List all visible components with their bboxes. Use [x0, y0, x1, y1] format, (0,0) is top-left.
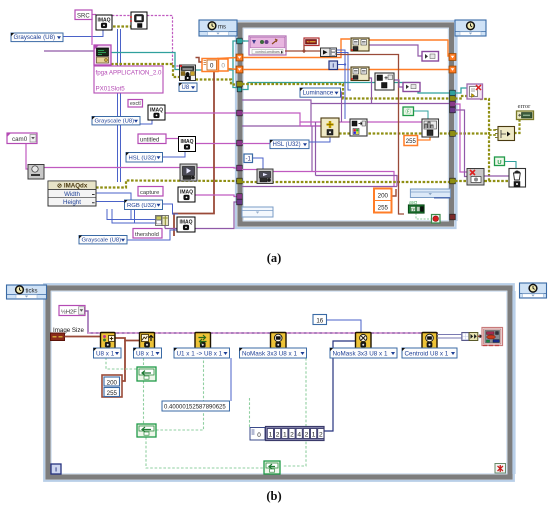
wire olive acquisition line [96, 181, 241, 188]
IMAQ create 4 untitled [179, 137, 196, 152]
svg-text:IMAQ: IMAQ [97, 17, 110, 23]
svg-text:255: 255 [378, 205, 389, 212]
wire olive to imaq flush [455, 96, 468, 99]
wire teal U to dispose [504, 162, 516, 170]
wire brown 200 255 [391, 189, 396, 196]
wire purple SRC down to fpga open [91, 17, 93, 45]
wire brown host-read down [196, 58, 203, 63]
wire teal to express vi [241, 40, 249, 42]
svg-text:⊘ IMAQdx: ⊘ IMAQdx [57, 183, 88, 190]
wire teal to imaq flush [455, 88, 468, 93]
enum LH2F [59, 306, 85, 316]
wire olive fpga to host-read block [111, 64, 180, 77]
svg-text:i: i [55, 467, 57, 474]
svg-text:IMAQ: IMAQ [180, 189, 193, 195]
image indicator mid [403, 83, 420, 92]
wire orange constants to tunnels [217, 58, 238, 59]
constant 0 second [219, 59, 229, 71]
svg-text:2: 2 [319, 431, 323, 438]
feedback node 2 [137, 424, 156, 437]
wire purple bottom [242, 186, 397, 188]
panel (b) timed loop frame [44, 284, 515, 481]
tunnel magenta left 3 [237, 194, 243, 200]
wire blue array up to b4 [324, 341, 356, 431]
constant 200 255 pair [374, 189, 392, 213]
ring HSL (U32) inner [270, 140, 309, 149]
wire brown b1 to b2 [115, 338, 140, 341]
wire olive imaq1 to display blk [113, 25, 131, 27]
green dashed enable chain [106, 349, 137, 370]
fpga vision block B1 [101, 333, 116, 349]
lookup block A2 [351, 67, 369, 81]
wire magenta SRC chain [91, 14, 96, 16]
svg-text:capture: capture [140, 190, 159, 196]
wire olive host-read to loop tunnel [196, 80, 242, 85]
wire teal fpga to host read [111, 53, 180, 70]
constant 0 first array [202, 59, 218, 72]
fpga vision block B6 [422, 333, 437, 349]
imaq flush block [467, 84, 483, 99]
wire magenta display row [242, 169, 257, 171]
wire blue minus1 [253, 158, 264, 169]
lookup block A1 [351, 38, 369, 51]
wire magenta mid [242, 113, 422, 122]
svg-text:U: U [497, 160, 501, 166]
svg-text:NoMask 3x3 U8 x 1: NoMask 3x3 U8 x 1 [242, 350, 297, 357]
iteration terminal i panel b [51, 464, 61, 474]
wire orange row 2 [243, 69, 350, 71]
wire purple enum down [85, 311, 438, 333]
wire olive flush down [480, 99, 489, 182]
svg-text:PX01Slot5: PX01Slot5 [96, 86, 126, 93]
wire purple camera session [26, 142, 28, 169]
fpga vision block B2 [140, 333, 155, 349]
ring U8 x 1 first [94, 348, 122, 358]
threshold range cluster [156, 216, 169, 226]
wire orange 255 to threshold [416, 137, 430, 140]
svg-text:ms: ms [218, 24, 226, 30]
tunnel magenta left 1b [237, 140, 243, 146]
IMAQ create 6 threshold [177, 217, 195, 232]
wire blue grayscale2 to imaq4 [140, 121, 152, 125]
fpga host read block [180, 65, 196, 81]
ring Grayscale (U8) second [92, 117, 140, 125]
wire magenta capture imaq to tunnel [195, 195, 241, 197]
wire blue unbundle down [337, 50, 346, 119]
svg-text:2: 2 [276, 431, 280, 438]
fpga open block [94, 45, 111, 65]
tunnel purple left 4 [237, 199, 243, 205]
svg-text:HSL (U32): HSL (U32) [129, 155, 157, 161]
wire blue hsl2 up [309, 137, 330, 142]
svg-text:control-cmdbars: control-cmdbars [255, 50, 280, 54]
boolean U indicator [495, 157, 505, 166]
wire purple right down [455, 110, 467, 177]
wire blue pair from display block down [117, 29, 119, 182]
svg-text:Luminance: Luminance [303, 90, 334, 97]
loop stop terminal panel b [495, 464, 506, 474]
wire blue 16 to b4 [326, 320, 361, 333]
wire out to display [437, 334, 462, 336]
constant 16 [313, 315, 327, 325]
svg-text:U8 x 1: U8 x 1 [136, 350, 155, 357]
svg-text:exctl: exctl [130, 101, 141, 107]
tunnel magenta left 1 [237, 110, 243, 116]
svg-text:4: 4 [297, 431, 301, 438]
svg-text:0: 0 [210, 63, 214, 70]
svg-text:IMAQ: IMAQ [150, 107, 163, 113]
tunnel magenta left 2 [237, 165, 243, 171]
svg-text:Width: Width [64, 191, 80, 198]
boolean lv constant [403, 107, 414, 116]
wire teal host read to loop [196, 41, 246, 70]
constant 200 255 blue pair [102, 375, 122, 397]
svg-text:Grayscale (U8): Grayscale (U8) [82, 237, 122, 243]
iteration terminal i [329, 61, 338, 70]
wire teal mid [242, 83, 450, 94]
svg-text:Grayscale (U8): Grayscale (U8) [14, 34, 56, 41]
tunnel teal left 2 [237, 87, 242, 92]
timed loop (b) input node ticks [7, 285, 47, 299]
imaq color to gray block [350, 119, 367, 136]
image indicator top [422, 52, 439, 62]
IMAQ create 1 [96, 15, 112, 30]
svg-text:200: 200 [107, 379, 118, 386]
IMAQ create 5 capture [178, 187, 195, 202]
svg-text:(a): (a) [267, 251, 282, 265]
IMAQ create 3 exctl [148, 105, 165, 120]
ring U1 x 1 to U8 x 1 [174, 348, 230, 358]
unbundle by name block [321, 48, 337, 57]
RT display block 2 [257, 169, 273, 184]
constant 0.40000152587890625 [162, 401, 230, 411]
kernel array constant [250, 427, 324, 441]
image display block [130, 12, 147, 29]
inner frame bar right [410, 189, 450, 198]
tunnel teal left [237, 38, 243, 44]
svg-text:0: 0 [257, 432, 261, 439]
svg-text:2: 2 [290, 431, 294, 438]
boolean avg terminal [409, 205, 425, 213]
svg-text:HSL (U32): HSL (U32) [273, 142, 301, 148]
tunnel olive right 2 [450, 131, 456, 137]
svg-text:cam0: cam0 [12, 136, 28, 143]
cluster constant TTOL [304, 38, 319, 46]
wire purple threshold imaq to tunnel [165, 202, 241, 229]
wire blue width height to loop [95, 193, 156, 220]
camera name cam0 [7, 133, 37, 144]
express vi vision acquisition [249, 36, 286, 55]
RT video block [180, 164, 197, 181]
ring RGB (U32) [125, 200, 163, 210]
wire olive extract to threshold [339, 132, 450, 134]
tunnel olive left [237, 81, 243, 87]
svg-text:thershold: thershold [135, 232, 159, 238]
svg-text:1: 1 [283, 431, 287, 438]
centroid display terminal [482, 328, 503, 346]
imaq add block [375, 73, 394, 90]
svg-text:ticks: ticks [26, 288, 38, 294]
fpga vision block B5 [356, 333, 372, 349]
timed loop (b) output node [520, 283, 547, 298]
image size indicator [51, 333, 65, 341]
svg-text:+: + [384, 75, 388, 82]
tunnel purple right [450, 107, 456, 113]
constant 255 mid [404, 136, 418, 146]
wire purple luminance down [341, 92, 342, 122]
imaq dispose block [509, 169, 526, 188]
ring Centroid U8 x 1 [402, 348, 457, 358]
ring NoMask 3x3 U8 x 1 first [240, 348, 307, 358]
panel (a) timed loop frame [236, 21, 458, 228]
svg-text:RGB (U32): RGB (U32) [127, 203, 156, 209]
wire green lv to threshold [413, 111, 428, 119]
label SRC [75, 10, 92, 20]
wire olive bottom [242, 181, 452, 183]
svg-text:fpga APPLICATION_2.0: fpga APPLICATION_2.0 [96, 70, 162, 77]
ring Luminance [300, 88, 341, 97]
wire orange row1 out to tunnel [367, 40, 452, 56]
property node IMAQdx width height [48, 181, 96, 206]
label exctl [128, 100, 143, 108]
svg-text:1: 1 [269, 431, 273, 438]
svg-text:0: 0 [221, 63, 225, 70]
svg-text:SRC: SRC [77, 13, 90, 19]
svg-text:U1 x 1 -> U8 x 1: U1 x 1 -> U8 x 1 [177, 350, 223, 357]
wire olive merge to error out [514, 119, 520, 133]
ring U8 x 1 second [134, 348, 162, 358]
fpga application label [94, 66, 163, 93]
wire purple a1 to indicator [367, 45, 422, 56]
timed loop (a) input node ms [199, 20, 237, 36]
wire olive to merge errors [455, 132, 489, 134]
merge errors block [495, 127, 515, 141]
svg-text:error: error [518, 103, 531, 110]
svg-text:0.40000152587890625: 0.40000152587890625 [164, 405, 226, 411]
error out indicator [517, 111, 534, 120]
imaq extract block [321, 118, 339, 137]
svg-text:U8 x 1: U8 x 1 [96, 350, 115, 357]
wire blue HSL to imaq4 [163, 152, 186, 158]
imaq threshold block [422, 119, 439, 137]
imaqdx close camera block [467, 169, 484, 186]
wire purple to fpga ref [44, 50, 94, 52]
IMAQdx open camera block [28, 165, 44, 180]
wire green stop [416, 213, 432, 219]
feedback node 1 [137, 367, 156, 381]
wire magenta exctl imaq to tunnel [165, 112, 241, 114]
svg-text:Grayscale (U8): Grayscale (U8) [95, 118, 135, 124]
feedback node 3 [264, 461, 280, 474]
to u32 convert block [462, 333, 469, 341]
wire grayscale U8 to IMAQ create 1 [63, 28, 103, 37]
wire brown down to 200 255 [122, 341, 125, 382]
tunnel olive right 3 [450, 178, 456, 184]
wire magenta right down [455, 104, 467, 172]
svg-text:TF: TF [411, 208, 416, 212]
svg-text:U8: U8 [182, 85, 190, 91]
label untitled [138, 134, 166, 144]
tunnel orange left 1 [236, 54, 243, 61]
fpga vision block B3 [195, 333, 211, 349]
svg-text:2: 2 [305, 431, 309, 438]
wire blue i terminal [338, 64, 346, 66]
ring Grayscale (U8) top [11, 33, 63, 42]
fpga vision block B4 [271, 333, 287, 349]
svg-text:Height: Height [63, 199, 81, 206]
ring HSL (U32) [126, 153, 163, 163]
tunnel orange right 1 [449, 54, 456, 61]
tunnel olive right 1 [450, 96, 456, 102]
svg-text:255: 255 [107, 390, 118, 397]
wire blue 0.4 const up [230, 358, 232, 401]
svg-text:IMAQ: IMAQ [180, 139, 193, 145]
timed loop (a) output node [455, 20, 486, 36]
tunnel teal right [450, 90, 456, 96]
ring NoMask 3x3 U8 x 1 second [330, 348, 397, 358]
svg-text:IMAQ: IMAQ [179, 219, 192, 225]
wire olive mid [242, 84, 450, 99]
svg-text:(b): (b) [266, 489, 281, 503]
index block [469, 333, 478, 341]
wire magenta untitled imaq to tunnel [166, 138, 179, 140]
wire purple verticals to lower bus [311, 126, 313, 172]
wire purple close to dispose [484, 175, 509, 177]
tunnel orange left 2 [236, 66, 243, 73]
ring Grayscale (U8) third [79, 236, 127, 244]
wire purple add to indicator [394, 80, 403, 87]
wire orange row 1 [243, 39, 350, 58]
wire blue grayscale3 to imaq6 [127, 230, 177, 240]
inner frame bar left [242, 207, 273, 217]
svg-text:Centroid U8 x 1: Centroid U8 x 1 [405, 350, 449, 357]
wire olive bottom to dispose [455, 180, 509, 182]
wire brown error to unbundle [285, 46, 304, 52]
tunnel orange right 2 [449, 66, 456, 73]
svg-text:NoMask 3x3 U8 x 1: NoMask 3x3 U8 x 1 [333, 350, 388, 357]
svg-text:16: 16 [316, 317, 323, 324]
tunnel magenta right [450, 101, 456, 107]
wire brown image size [65, 336, 101, 338]
wire purple row a [242, 100, 321, 126]
label capture [138, 187, 163, 197]
label thershold [133, 229, 162, 239]
svg-text:½H2F: ½H2F [61, 308, 77, 315]
svg-text:1: 1 [312, 431, 316, 438]
wire purple row b [242, 125, 311, 127]
tunnel olive left 2 [237, 178, 243, 184]
loop stop condition [432, 215, 441, 224]
wire blue RGB to imaq5 [163, 204, 179, 214]
svg-text:untitled: untitled [140, 137, 159, 143]
svg-text:-1: -1 [246, 157, 252, 163]
ring U8 [179, 83, 197, 91]
svg-text:200: 200 [378, 193, 389, 200]
tunnel darkred right [450, 214, 456, 220]
svg-text:Ⓕ: Ⓕ [405, 108, 411, 116]
wire brown unbundle down [337, 55, 405, 215]
constant -1 [244, 154, 253, 163]
svg-text:255: 255 [406, 139, 417, 145]
